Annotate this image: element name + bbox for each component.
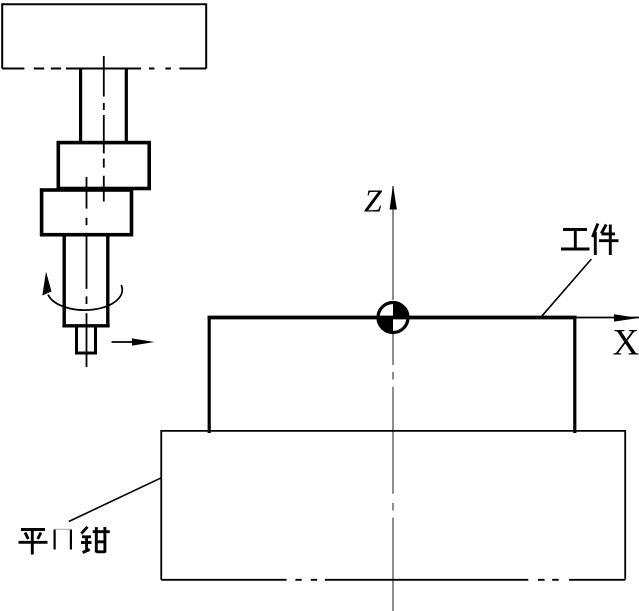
chuck block — [42, 190, 132, 235]
tool tip — [77, 327, 96, 353]
feed arrow line — [112, 341, 150, 343]
vise body — [161, 431, 625, 580]
workpiece — [208, 316, 577, 433]
workpiece label 工件 — [561, 224, 619, 256]
rotation arrowhead — [42, 272, 51, 296]
svg-text:Z: Z — [364, 183, 383, 219]
spindle centerline — [103, 56, 105, 202]
origin symbol — [378, 303, 408, 333]
vise label 平口钳 — [19, 527, 110, 555]
vise leader line — [69, 478, 161, 522]
spindle head housing — [2, 4, 206, 68]
svg-text:X: X — [613, 323, 639, 364]
X axis line — [577, 317, 639, 319]
collet block — [58, 143, 149, 189]
feed arrowhead — [132, 338, 155, 345]
Z axis arrowhead — [390, 185, 397, 209]
tool centerline — [86, 177, 88, 367]
X axis arrowhead — [614, 314, 639, 321]
rotation arc — [48, 285, 122, 310]
workpiece leader line — [541, 259, 591, 317]
workpiece vertical centerline — [392, 186, 394, 611]
tool shank — [62, 235, 109, 326]
spindle shaft — [81, 69, 127, 143]
